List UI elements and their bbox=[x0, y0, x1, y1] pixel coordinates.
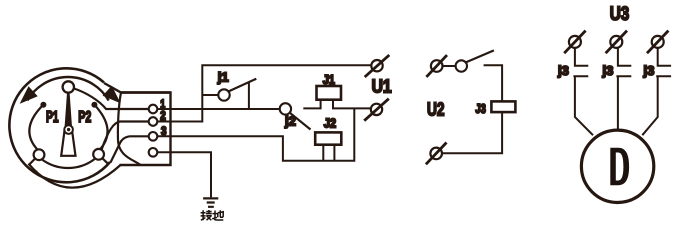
node P1 dot bbox=[40, 102, 46, 108]
svg-text:P2: P2 bbox=[78, 109, 91, 126]
svg-text:j3: j3 bbox=[643, 63, 655, 78]
svg-text:j2: j2 bbox=[284, 113, 296, 128]
brush circle left bbox=[34, 149, 45, 160]
ground bbox=[203, 198, 218, 206]
wire J3 to U2 bottom terminal bbox=[442, 112, 502, 153]
wire bottom arc around meter case bbox=[28, 164, 120, 188]
U3 terminal 1 slash bbox=[564, 31, 585, 54]
terminal 1 circle bbox=[149, 105, 158, 114]
U3 terminal 2 circle bbox=[610, 36, 622, 48]
contact j1 circle bbox=[218, 89, 229, 100]
contact j3 mid upper lead bbox=[618, 48, 631, 66]
channel boundary curve bbox=[118, 93, 141, 166]
terminal 2 circle bbox=[149, 117, 158, 126]
contact j3 left upper lead bbox=[575, 48, 588, 66]
meter P outer case circle bbox=[9, 68, 110, 182]
contact j3 left lower lead bbox=[573, 76, 593, 135]
meter case tab top edge bbox=[104, 83, 171, 93]
terminal 4 circle bbox=[149, 148, 158, 157]
relay coil J3 box bbox=[491, 101, 515, 112]
U2 bottom terminal slash bbox=[426, 143, 447, 165]
needle pivot bbox=[64, 125, 73, 134]
U2 top terminal slash bbox=[426, 55, 447, 77]
U3 terminal 2 slash bbox=[606, 31, 627, 54]
brush circle right bbox=[93, 149, 104, 160]
svg-text:U3: U3 bbox=[610, 4, 630, 25]
wire P2 dot to right brush bbox=[94, 105, 107, 150]
wire terminal 3 into meter bbox=[111, 136, 150, 162]
wire terminal4 to ground bbox=[157, 152, 211, 197]
wire terminal3 to bottom rail to node bbox=[157, 108, 354, 160]
left brush stub bbox=[29, 159, 34, 165]
U2 bottom terminal circle bbox=[430, 148, 442, 160]
U3 terminal 3 circle bbox=[652, 36, 664, 48]
contact j1 stub bbox=[202, 94, 218, 96]
wire needle circle to terminal 1 bbox=[74, 89, 149, 110]
contact j1 arm bbox=[229, 79, 257, 92]
svg-text:j1: j1 bbox=[217, 70, 229, 85]
right arrowhead bbox=[105, 88, 118, 101]
svg-text:2: 2 bbox=[160, 108, 166, 122]
contact j3 mid lower lead bbox=[616, 76, 631, 129]
wire contact to J3 coil bbox=[484, 65, 503, 101]
right brush stub bbox=[103, 159, 109, 165]
needle upper solid bbox=[64, 93, 72, 130]
rotation arc (double arrow) bbox=[27, 77, 108, 100]
wire terminal1 bus to j2 bbox=[157, 108, 279, 110]
contact j1 right lead bbox=[248, 83, 250, 110]
coil J1 left leg to j2 contact bbox=[303, 100, 320, 109]
U1 lower terminal slash bbox=[364, 99, 389, 121]
U2 top terminal circle bbox=[431, 60, 443, 72]
U1 upper terminal circle bbox=[371, 60, 382, 71]
wire P1 dot to left brush bbox=[29, 105, 43, 150]
coil J2 right leg bbox=[333, 145, 335, 161]
contact j3 right lower lead bbox=[642, 76, 671, 135]
coil J2 left leg bbox=[322, 145, 324, 161]
pivot center dot bbox=[67, 128, 70, 131]
contact j2 arm bbox=[290, 113, 311, 130]
U2 contact arm bbox=[466, 50, 494, 62]
node P2 dot bbox=[91, 102, 97, 108]
inner bottom arc bbox=[42, 159, 95, 168]
label 接地 (drawn strokes) bbox=[201, 210, 224, 220]
contact j2 circle bbox=[280, 103, 291, 114]
svg-text:J2: J2 bbox=[324, 116, 336, 130]
wire U2 top to contact bbox=[443, 65, 456, 67]
coil J1 right leg to U1 lower bbox=[333, 100, 371, 109]
U2 contact circle bbox=[456, 60, 467, 71]
contact j3 right upper lead bbox=[658, 48, 671, 66]
U3 terminal 3 slash bbox=[647, 31, 668, 54]
relay coil J2 box bbox=[315, 132, 341, 144]
svg-text:U2: U2 bbox=[427, 100, 445, 120]
terminal 3 circle bbox=[149, 132, 158, 141]
needle top circle bbox=[63, 81, 74, 92]
svg-text:j3: j3 bbox=[602, 63, 614, 78]
U1 upper terminal slash bbox=[365, 55, 390, 77]
svg-text:J1: J1 bbox=[323, 73, 335, 87]
needle lower wedge bbox=[61, 130, 75, 156]
relay coil J1 box bbox=[317, 86, 342, 100]
left arrowhead bbox=[22, 88, 35, 101]
wire terminal 2 to right brush bbox=[102, 122, 149, 150]
svg-text:P1: P1 bbox=[46, 109, 59, 126]
svg-text:U1: U1 bbox=[372, 77, 392, 97]
svg-text:J3: J3 bbox=[475, 102, 486, 116]
motor D letter bbox=[610, 148, 629, 185]
terminal box bbox=[120, 93, 171, 166]
motor D circle bbox=[581, 130, 653, 202]
svg-text:j3: j3 bbox=[557, 63, 569, 78]
wire terminal2 up to top rail and U1 top bbox=[157, 65, 371, 121]
U3 terminal 1 circle bbox=[569, 36, 581, 48]
U1 lower terminal circle bbox=[371, 104, 382, 115]
